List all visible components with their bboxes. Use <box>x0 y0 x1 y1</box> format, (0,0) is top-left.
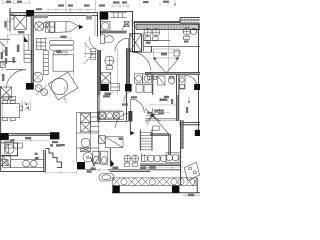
label 365 balcony <box>112 166 118 169</box>
dining table small (x53-74) <box>53 55 74 71</box>
wall horizontal y73.5 right side <box>145 73 200 75</box>
sink strip right bath <box>179 76 185 89</box>
pantry shelf rows <box>77 117 99 133</box>
wall vertical x~169-170 master <box>169 134 171 155</box>
labels stepped dim <box>50 144 53 146</box>
dim line y140 left <box>0 138 50 142</box>
boxes right of C5 <box>111 83 120 90</box>
dim row y105 master <box>150 98 175 107</box>
label master fan line <box>154 110 164 112</box>
wall jog y~122.5-125 right <box>180 122 201 124</box>
ticks right wall x181 <box>181 123 183 182</box>
column C6 mid-center-right <box>125 84 132 91</box>
hood circles master bottom <box>166 154 172 160</box>
fan symbols bottom-center row <box>124 155 131 162</box>
labels master dim <box>160 98 168 101</box>
door arc bedroom2 (hinge 150.7,52) <box>132 52 151 71</box>
hall bottom line <box>98 120 129 122</box>
wall top-mid room top line <box>108 10 132 12</box>
left dim extra ticks <box>1 34 9 62</box>
kitchen counter bottom-left <box>2 155 10 167</box>
toilet right bath <box>169 77 175 84</box>
label 05 center <box>56 50 61 53</box>
column C4 mid-left <box>26 83 34 90</box>
dim row y54.8 center <box>53 53 64 56</box>
dim marks right of dining table <box>22 101 29 112</box>
twin lines master y119 <box>145 119 177 121</box>
wall vertical B (center at x~98-101) <box>98 13 101 121</box>
louver frame <box>112 178 197 186</box>
closet cells left of wall A <box>24 50 32 62</box>
column C11 right lower <box>195 130 200 136</box>
dim x110-114 bottom center <box>91 169 108 171</box>
dining table main with chairs <box>1 104 20 118</box>
wall vertical C (center at x~127-131) <box>127 48 130 121</box>
labels fans top right <box>146 42 151 44</box>
wall left vertical upper <box>9 8 11 32</box>
tick x65 y98 <box>65 98 67 103</box>
column C13 balcony right <box>172 186 179 193</box>
column C7 right edge mid <box>194 84 200 90</box>
stairs treads <box>140 132 152 149</box>
kitchen sink boxes upper <box>5 142 14 148</box>
dim line y38 sofa <box>46 36 72 39</box>
balcony top line <box>108 170 181 172</box>
label 750 balcony <box>140 166 146 169</box>
label bottom right dim <box>188 194 194 196</box>
toilet pair bottom-center <box>93 151 100 164</box>
left dim arrows mid2 <box>3 50 5 66</box>
dim rect bedroom top-right <box>154 49 180 58</box>
ceiling fan master (radiating star) <box>151 114 154 117</box>
X-box lower-left wall <box>1 87 12 98</box>
V cone bedroom top-right <box>154 59 179 73</box>
kitchen bottom wall <box>1 171 46 173</box>
top-right stepped band <box>180 17 200 23</box>
label hall 45 <box>119 138 123 140</box>
dim balcony y170 labels ticks <box>112 168 181 170</box>
X-box kitchen left edge <box>1 160 8 166</box>
dim tick x189 master <box>188 97 190 103</box>
tilted tub/piano <box>48 72 78 100</box>
hatch right wall x177 fill <box>177 95 179 121</box>
wall top-mid room bottom <box>100 31 127 33</box>
toilet room diagonal <box>90 157 94 166</box>
label 100 toilet <box>90 168 95 171</box>
hall vanity band (x98-123) <box>98 112 123 120</box>
pantry lower block <box>77 148 99 170</box>
ticks right wall x177 <box>177 98 179 118</box>
bathroom right: shower box <box>157 76 165 85</box>
double vanity right-center <box>135 74 143 83</box>
wall y134.5 master bedroom <box>150 134 170 135</box>
fan flower top (ceiling fan) <box>35 22 44 31</box>
left vertical dim column <box>1 44 5 118</box>
left lower window line <box>0 61 16 63</box>
door leaf living-SW <box>6 69 26 71</box>
elevator X-shaft <box>130 34 142 52</box>
column C9 wall y134 right end <box>50 132 59 139</box>
ticks wall B vertical <box>98 54 101 82</box>
black arrow right of kayak <box>79 25 83 29</box>
closet row top-mid room <box>110 12 127 17</box>
door arc living to hall (x89-97) <box>89 37 97 50</box>
label below C10 <box>87 170 92 172</box>
small X-box pantry mid <box>81 148 91 152</box>
label y140 row <box>10 139 15 141</box>
sofa stadium 1 <box>49 40 74 45</box>
door arc toilet room <box>115 38 128 52</box>
dim DN label area <box>104 92 114 94</box>
door arc below C6 <box>124 92 132 102</box>
dining dim arrows <box>25 102 30 109</box>
boxes right of wall A <box>36 38 46 49</box>
door arc small top (laundry) <box>123 24 129 30</box>
door arc bath right <box>185 75 197 87</box>
box in V <box>174 50 179 56</box>
wall top horiz right of room <box>134 21 180 22</box>
dim under stairs/master labels <box>153 111 169 113</box>
hatch vertical wall C fill <box>127 48 129 84</box>
hatch strip below C (dark) <box>128 111 132 121</box>
dim line y52 bedroomTR <box>151 50 181 54</box>
wall top-left horizontal double <box>10 13 98 16</box>
window band in wall A upper <box>24 35 29 51</box>
kitchen top-left small room <box>1 143 18 156</box>
left dim arrows mid <box>9 21 12 23</box>
hatch vertical wall A fill <box>31 16 33 83</box>
master bedroom inner vertical x140 stairs left <box>140 130 152 151</box>
grid line bedroom TR <box>168 23 170 72</box>
dim pantry right labels <box>86 168 100 172</box>
balcony right edge <box>196 178 198 193</box>
label DN <box>105 93 111 95</box>
hatch top wall band A <box>34 15 48 19</box>
laundry fan X small <box>124 21 129 26</box>
labels right bath <box>164 96 169 98</box>
hatch wall y73.5 fill <box>145 73 200 74</box>
tick x70 top <box>70 8 95 36</box>
extra top ticks <box>48 2 168 13</box>
ticks wall y73.5 <box>147 73 193 74</box>
grid box left of kayak <box>46 22 55 32</box>
dim right bedroom bottom <box>140 166 180 170</box>
ticks top-right stepped band <box>182 18 197 23</box>
left edge labels column <box>4 21 6 28</box>
top edge tiny labels <box>6 1 11 3</box>
dim bottom-left kitchen <box>45 171 76 175</box>
door arc hall (hinge near x115) <box>115 113 130 128</box>
kitchen right wall <box>44 150 46 172</box>
label 700 left <box>5 47 8 56</box>
laundry room washer top-mid <box>100 21 110 31</box>
label 750 bedroomTR <box>161 53 167 56</box>
hall left wall piece x=110 bottom center <box>109 148 111 166</box>
small room below hall-left <box>98 135 105 143</box>
wall y164.5 master bottom <box>140 164 181 165</box>
hatch wall y134 band gray <box>12 134 49 135</box>
dim ticks top edge <box>3 0 175 12</box>
label left 130-ish mid <box>2 74 4 81</box>
small outlet boxes left of shower <box>148 76 152 79</box>
ticks top wall living <box>12 13 24 16</box>
column C3 top-right <box>192 24 199 30</box>
dim vertical x65 tub <box>63 87 67 100</box>
wall C stub below hatch strip <box>129 121 131 131</box>
bathroom partition walls right <box>153 74 179 95</box>
wall y133-135 left span <box>9 133 50 135</box>
toilet kitchen-corner <box>5 145 14 154</box>
small boxes below X-box <box>3 96 8 100</box>
tilted lounge bottom-right <box>184 162 199 180</box>
column C8 left wall end <box>0 133 9 140</box>
column C2 top-middle <box>100 11 109 19</box>
burner circle 2 <box>30 160 37 167</box>
left dim column upper <box>7 18 9 31</box>
label right edge mid <box>186 107 188 113</box>
grid line hall vertical <box>117 48 119 95</box>
wall vertical x~180-183 (hatched) lower right <box>181 120 183 185</box>
chairs row master bottom <box>142 155 148 161</box>
hatch right wall x181 fill <box>181 120 183 149</box>
washer circle 1 <box>81 138 90 147</box>
label 705 master-bottom <box>149 166 155 169</box>
wall left boundary lower <box>0 86 2 172</box>
wall top-mid room right vertical <box>133 11 135 52</box>
skylight X-box living top-left <box>14 15 26 29</box>
label kitchen 15 <box>35 153 38 155</box>
fan symbol hall (circle with cross) <box>105 56 114 65</box>
wall line under fans <box>144 41 200 47</box>
dim ticks near hall vanity <box>98 109 123 112</box>
small box left lower <box>0 62 5 67</box>
pantry X cells <box>81 114 91 123</box>
labels near C5/C6 <box>103 95 110 97</box>
wall right boundary <box>198 30 200 130</box>
washer circle 2 <box>83 152 93 162</box>
wall vertical A (left-center, hatched closet wall) <box>31 16 33 84</box>
column C5 mid-center-left <box>100 84 109 91</box>
label 130 sofa <box>60 36 66 38</box>
kayak sofa (chaise) <box>46 21 78 32</box>
labels below C9 <box>52 141 58 143</box>
table bottom-center-left <box>105 137 123 148</box>
balcony bottom line <box>112 192 200 194</box>
ticks top-right closet band <box>138 24 189 29</box>
bifold door symbol near wall B <box>84 43 96 64</box>
louver circles <box>121 179 127 185</box>
column C10 pantry bottom <box>77 162 85 169</box>
grid line living vertical <box>74 46 86 84</box>
closet band under top-right wall <box>136 24 199 29</box>
laundry wall dark hatch <box>131 20 135 26</box>
pantry cabinet block <box>77 112 99 148</box>
small shelf stack right of wall A lower <box>43 50 48 74</box>
fan pair lower-left <box>35 85 42 92</box>
label 750 living <box>18 31 24 33</box>
dim bottom right corner <box>182 194 200 198</box>
burner circle 1 <box>23 160 30 167</box>
louver X cells <box>113 178 197 185</box>
sofa stadium 2 <box>49 46 74 51</box>
hatch vertical wall B fill <box>98 50 101 95</box>
boxes under vanity <box>136 85 143 93</box>
dim line y34.4 living <box>10 32 34 36</box>
small table master <box>153 126 160 130</box>
hatch closet band right top <box>136 25 198 29</box>
labels master fan area <box>147 112 152 114</box>
ticks wall A vertical <box>31 20 33 80</box>
wall right vertical x~177-180 lower <box>177 95 179 121</box>
label 750 left rotated <box>17 45 20 52</box>
dim arrow top x175 <box>174 3 176 5</box>
hatch band near x86-92 top <box>86 15 92 20</box>
label 705 wall <box>25 137 31 139</box>
door arc living-SW <box>6 70 26 90</box>
stepped wall kitchen-east <box>45 148 61 167</box>
fan circles top right row <box>144 29 151 36</box>
toilet top-mid <box>101 35 105 44</box>
left edge lines near y39-46 <box>0 39 10 46</box>
small box left of skylight <box>10 14 14 19</box>
column C1 top-left <box>26 10 34 17</box>
ticks wall C vertical <box>127 50 130 82</box>
fan circle mid-left <box>33 72 43 82</box>
oval sink bottom-center <box>99 174 114 181</box>
X-box above column C5 <box>100 73 110 83</box>
column C12 balcony left <box>112 186 119 193</box>
door arc bedroomR upper (leaf x130) <box>130 99 144 113</box>
wall bedroom2 left stub <box>150 47 152 53</box>
